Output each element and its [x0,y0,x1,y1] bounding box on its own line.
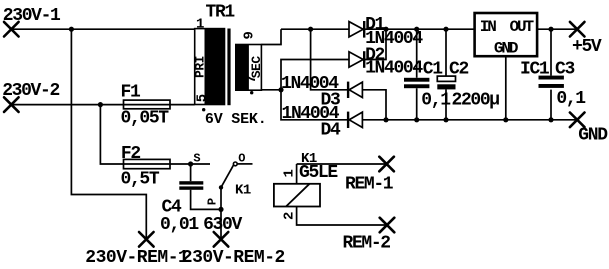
node C2 + rail junction [443,27,448,32]
wire branch down to F2 [100,105,190,164]
svg-text:O: O [238,152,245,166]
transformer TR1 secondary winding [236,45,262,91]
svg-text:PRI: PRI [193,56,208,78]
node C3 - rail junction [548,117,553,122]
node C3 + rail junction [548,27,553,32]
wire pin9 node to D1 anode [281,28,349,30]
wire C2 branch [445,29,447,120]
transformer TR1 primary winding [195,29,225,105]
wire 230V-1 branch to 230V-REM-1 [71,29,146,239]
node 230V-1 junction [69,27,74,32]
node S junction [188,161,193,166]
relay coil K1 [274,184,320,207]
wire D2 cathode up to + rail [365,29,386,59]
svg-text:230V-1: 230V-1 [3,6,61,26]
svg-text:1N4004: 1N4004 [365,59,423,79]
diode D3 [348,82,362,98]
wire pin7 junction down to D4 cathode [281,90,347,120]
svg-text:OUT: OUT [510,18,535,36]
capacitor C1 [404,78,429,88]
svg-text:S: S [193,152,200,166]
svg-text:7: 7 [244,75,260,83]
transformer core [227,29,230,106]
diode D2 [349,51,364,68]
wire pin7 junction up to D2 anode [281,60,349,90]
svg-text:0,5T: 0,5T [121,170,160,190]
svg-text:0,05T: 0,05T [121,109,170,129]
svg-text:SEC: SEC [249,56,264,79]
diode D1 [349,21,364,38]
node pin7 junction [278,87,283,92]
svg-text:2200µ: 2200µ [452,90,500,110]
terminal X REM-1 [379,157,394,172]
node C2 - rail junction [443,117,448,122]
wire C1 branch [416,29,418,120]
wire - rail from D4 anode to GND terminal [362,119,577,121]
wire S to C4 top [190,164,192,181]
svg-text:1: 1 [196,17,204,33]
svg-text:0,1: 0,1 [421,90,451,110]
wire switch O contact stub [237,163,252,165]
svg-text:K1: K1 [235,183,251,199]
op-amp U1 regulator IC1 box [475,13,537,56]
wire IC1 OUT to +5V terminal [537,28,577,30]
switch pivot dot [219,185,223,189]
svg-text:630V: 630V [203,215,242,235]
node C1 - rail junction [414,117,419,122]
svg-text:REM-2: REM-2 [343,233,391,253]
node IC1 GND - rail junction [503,117,508,122]
terminal X 230V-2 [4,97,19,112]
wire P junction to 230V-REM-2 [220,209,222,239]
svg-text:IC1: IC1 [520,60,550,80]
terminal X REM-2 [380,218,395,233]
svg-text:5: 5 [194,94,210,102]
node D3 - rail junction [383,117,388,122]
svg-text:GND: GND [578,126,608,146]
svg-text:C2: C2 [449,60,468,80]
wire D1 cathode to IC1 IN (+ rail) [365,28,475,30]
svg-text:230V-2: 230V-2 [2,81,59,101]
wire 230V-2 through F1 to TR1 pin5 [11,104,194,106]
wire pin9 node down to D3 cathode [311,29,348,90]
terminal X +5V [570,22,585,37]
terminal X 230V-REM-2 [214,232,229,247]
capacitor C4 [179,181,203,190]
svg-text:G5LE: G5LE [299,163,338,183]
svg-text:D4: D4 [321,121,341,141]
node 230V-2 junction [98,102,103,107]
svg-text:2: 2 [281,212,297,220]
svg-text:230V-REM-2: 230V-REM-2 [182,248,285,268]
wire 230V-1 to TR1 pin1 [11,28,194,30]
terminal X GND [570,113,585,128]
terminal X 230V-REM-1 [139,232,154,247]
svg-text:6V SEK.: 6V SEK. [205,111,267,128]
node C1 + rail junction [414,27,419,32]
svg-text:GND: GND [494,40,518,58]
svg-text:TR1: TR1 [206,3,236,23]
node P junction [218,207,223,212]
svg-text:+5V: +5V [572,37,602,57]
switch K1 blade [221,165,234,188]
svg-text:IN: IN [480,18,497,36]
wire SEC pin9 elbow [261,29,281,44]
svg-text:F2: F2 [121,144,140,164]
svg-text:P: P [205,198,219,205]
node pin9 junction [308,27,313,32]
wire relay pin2 to REM-2 [297,207,387,226]
diode D4 [348,112,362,128]
svg-text:C3: C3 [555,60,574,80]
node D2 + rail junction [383,27,388,32]
wire C4 bottom to P pivot [191,190,221,210]
polarity dot SEC [250,91,253,94]
svg-text:1: 1 [281,169,297,177]
wire C3 branch [550,29,552,120]
terminal X 230V-1 [4,22,19,37]
svg-text:REM-1: REM-1 [345,174,394,194]
polarity dot PRI [202,108,205,111]
wire S stub [191,163,210,165]
wire IC1 GND pin to - rail [505,56,507,120]
wire relay pin1 to REM-1 [297,164,387,184]
wire switch pivot to P junction [220,187,222,209]
svg-text:9: 9 [242,31,258,39]
fuse F1 [124,100,171,109]
wire D3 anode down to - rail [362,90,386,120]
fuse F2 [124,159,171,168]
capacitor C2 [437,76,455,89]
wire SEC pin7 to junction [261,89,281,91]
switch O contact circle [233,162,237,166]
svg-text:0,01: 0,01 [160,215,199,235]
svg-text:0,1: 0,1 [556,89,586,109]
svg-text:F1: F1 [121,83,141,103]
svg-text:230V-REM-1: 230V-REM-1 [85,248,189,268]
capacitor C3 [539,76,564,88]
